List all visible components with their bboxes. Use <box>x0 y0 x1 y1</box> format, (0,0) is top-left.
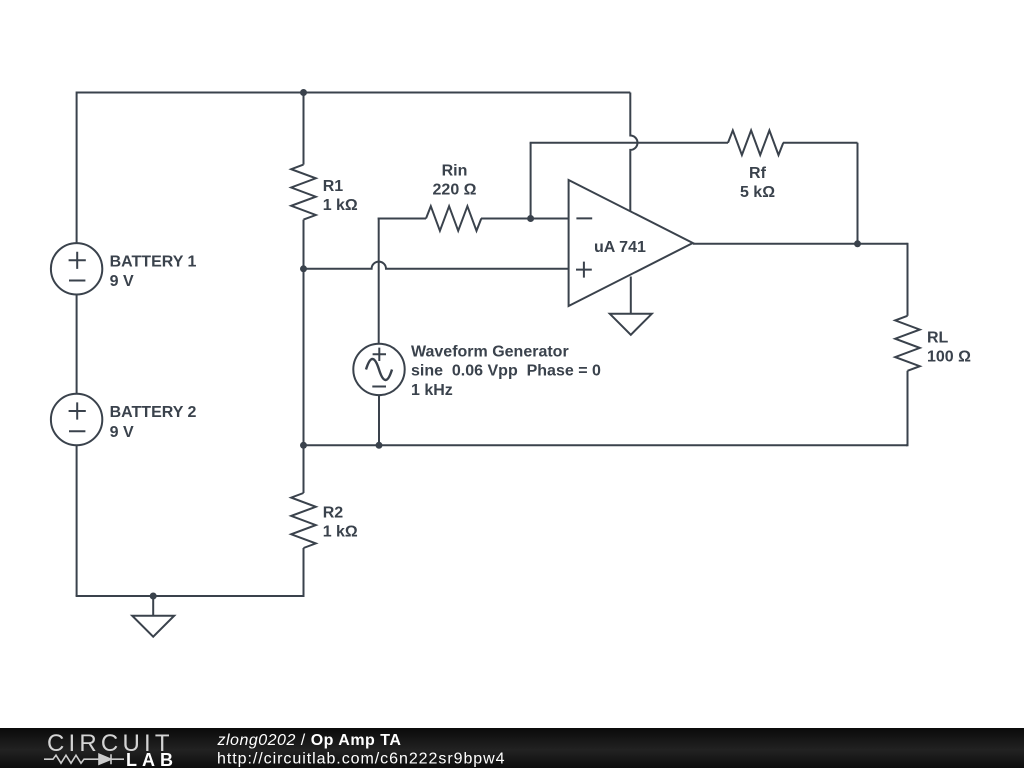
svg-text:9 V: 9 V <box>110 273 134 290</box>
op-amp U1 <box>569 180 693 306</box>
svg-text:sine 0.06 Vpp Phase = 0: sine 0.06 Vpp Phase = 0 <box>411 363 601 380</box>
resistor Rf <box>728 130 786 155</box>
svg-text:R2: R2 <box>323 505 344 522</box>
wire op-amp V- power <box>630 277 632 314</box>
ground GND2 <box>610 314 652 335</box>
svg-text:Rf: Rf <box>749 165 767 182</box>
node junction bottom rail / GND1 <box>150 593 157 600</box>
node junction top rail / R1 <box>300 89 307 96</box>
op-amp U1 plus symbol <box>576 262 592 278</box>
ground GND1 stem <box>152 596 154 616</box>
wire feedback from inverting node up <box>530 143 532 219</box>
svg-text:Waveform Generator: Waveform Generator <box>411 343 569 360</box>
wire left rail lower <box>76 445 78 596</box>
wire RL bottom lead <box>906 371 908 447</box>
svg-text:uA 741: uA 741 <box>594 239 646 256</box>
wire left rail upper <box>76 92 78 244</box>
wire op-amp V+ power (with hop over feedback wire) <box>630 93 637 212</box>
node junction output / feedback <box>854 240 861 247</box>
ground GND1 <box>132 616 174 637</box>
wire between batteries <box>76 295 78 394</box>
wire top rail <box>77 92 631 94</box>
svg-text:zlong0202 / Op Amp TA: zlong0202 / Op Amp TA <box>217 732 402 749</box>
wire noninverting input (with hop over generator wire) <box>304 262 569 269</box>
wire R1 top <box>303 93 305 165</box>
logo mini schematic resistor and diode <box>44 754 124 764</box>
svg-text:LAB: LAB <box>126 750 178 768</box>
svg-text:Rin: Rin <box>442 163 468 180</box>
node junction generator / middle rail <box>376 442 383 449</box>
svg-text:1 kΩ: 1 kΩ <box>323 197 358 214</box>
wire feedback top right <box>786 142 858 144</box>
battery BATTERY1 <box>51 243 102 294</box>
svg-text:http://circuitlab.com/c6n222sr: http://circuitlab.com/c6n222sr9bpw4 <box>217 751 506 768</box>
resistor Rin <box>426 206 483 231</box>
wire R2 bottom <box>303 548 305 596</box>
wire node B to R2 <box>303 445 305 493</box>
wire Rin left corner <box>378 218 380 344</box>
svg-text:BATTERY 1: BATTERY 1 <box>110 253 197 270</box>
wire bottom rail <box>76 595 305 597</box>
resistor R1 <box>291 165 316 220</box>
svg-text:1 kHz: 1 kHz <box>411 382 453 399</box>
svg-text:R1: R1 <box>323 178 344 195</box>
wire feedback top left <box>530 142 728 144</box>
node junction inverting input / feedback <box>527 215 534 222</box>
wire Rin lead right to inverting input <box>483 218 569 220</box>
waveform generator V3 <box>353 344 404 395</box>
wire middle rail <box>304 444 908 446</box>
svg-text:BATTERY 2: BATTERY 2 <box>110 404 197 421</box>
svg-text:1 kΩ: 1 kΩ <box>323 523 358 540</box>
wire output <box>693 243 908 245</box>
wire feedback down to output node <box>857 143 859 244</box>
svg-text:RL: RL <box>927 330 949 347</box>
svg-text:220 Ω: 220 Ω <box>433 182 477 199</box>
node junction B (middle rail / R1 branch) <box>300 442 307 449</box>
svg-text:9 V: 9 V <box>110 424 134 441</box>
svg-text:5 kΩ: 5 kΩ <box>740 184 775 201</box>
wire Rin lead left <box>378 218 426 220</box>
node junction A (R1 / noninverting wire) <box>300 265 307 272</box>
battery BATTERY2 <box>51 394 102 445</box>
wire R1 bottom to node A <box>303 220 305 269</box>
wire node A down to node B <box>303 269 305 446</box>
resistor RL <box>895 316 920 371</box>
wire generator bottom <box>378 395 380 445</box>
resistor R2 <box>291 493 316 548</box>
wire RL top lead <box>907 243 909 316</box>
svg-text:100 Ω: 100 Ω <box>927 348 971 365</box>
op-amp U1 minus symbol <box>576 217 592 219</box>
